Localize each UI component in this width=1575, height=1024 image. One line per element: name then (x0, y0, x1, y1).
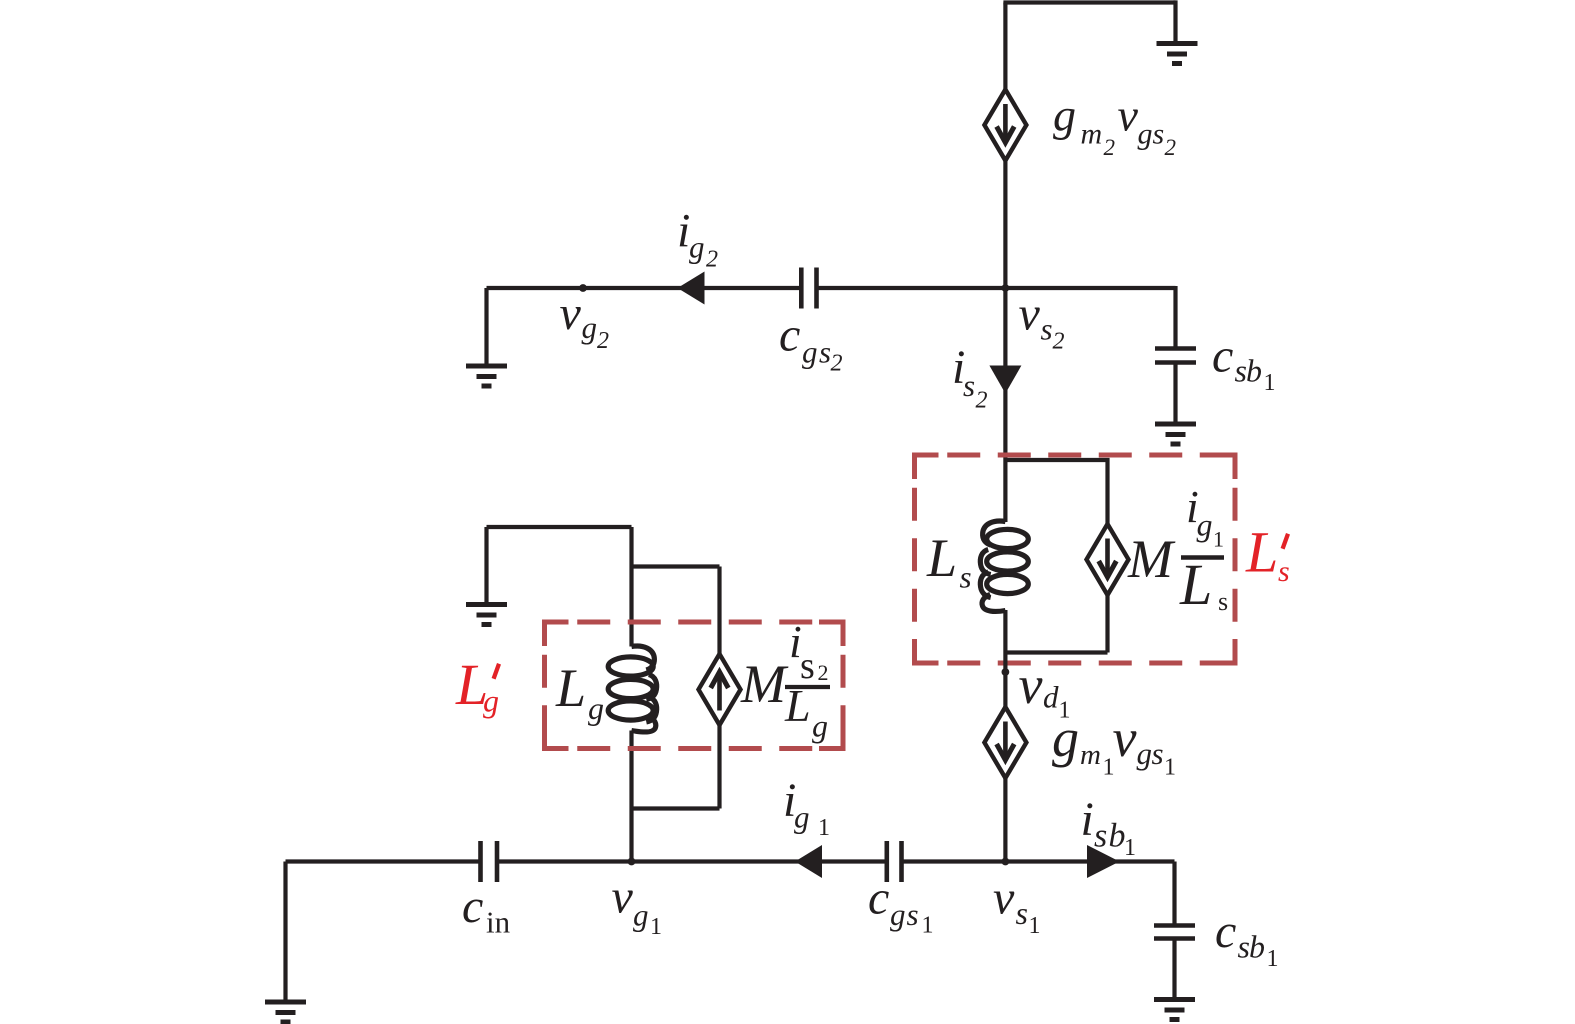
dashed box L_g' (equivalent inductance) (545, 622, 844, 749)
current arrow i_g1 (left) (795, 845, 822, 878)
ground (csb1 upper) (1155, 424, 1196, 444)
dependent current source M·i_s2/L_g (arrow up) (699, 654, 741, 725)
label fraction i_s2/L_g (784, 616, 830, 744)
node v_s2 junction (1002, 284, 1010, 292)
dependent current source G2 (g_m2·v_gs2, arrow down) (984, 90, 1026, 161)
wire: drop from top rail to ground (1173, 0, 1177, 43)
wire: Lg top horizontal (487, 525, 632, 529)
wire: Lg upper lead (629, 527, 633, 647)
svg-text:M: M (1127, 529, 1176, 589)
dependent current source M·i_g1/L_s (arrow down) (1087, 524, 1129, 595)
wire: Ls box inner top branch (1005, 460, 1107, 524)
wire: drop from vg2 rail to ground (484, 288, 488, 366)
current arrow i_s2 (down) (989, 366, 1021, 394)
current arrow i_g2 (left) (678, 272, 705, 305)
capacitor C_gs1 (887, 841, 902, 882)
label L_s′ (red) (1245, 520, 1290, 589)
ground (top right) (1157, 44, 1198, 64)
dependent current source G1 (g_m1·v_gs1, arrow down) (984, 707, 1026, 778)
capacitor C_sb1 (upper) (1155, 349, 1196, 363)
wire: csb1(upper) bottom lead (1173, 363, 1177, 425)
wire: vs2 down to Ls coil (1003, 288, 1007, 522)
wire: source rail right segment (cgs1 to csb1 branch) (902, 859, 1175, 863)
node v_g1 (628, 858, 636, 866)
wire: gm2 source top lead (1003, 3, 1007, 92)
current arrow i_sb1 (right) (1087, 845, 1120, 878)
capacitor C_sb1 (lower) (1154, 926, 1195, 939)
wire: gm1 bottom lead to node vs1 (1003, 778, 1007, 862)
wire: M-source branch bottom horizontal (left box) (632, 806, 720, 810)
wire: csb1(lower) top lead (1172, 862, 1176, 926)
wire: M source bottom lead (right box) (1105, 595, 1109, 653)
dashed box L_s' (equivalent inductance) (915, 455, 1236, 663)
node v_g2 (579, 284, 587, 292)
wire: csb1(upper) top lead (1173, 286, 1177, 349)
wire: input rail left segment (cin left) (286, 859, 481, 863)
capacitor C_gs2 (801, 268, 816, 309)
wire: input drop to ground (283, 862, 287, 1003)
label fraction i_g1/L_s (1179, 481, 1228, 617)
wire: M-source branch top horizontal (left box) (632, 564, 720, 568)
node v_s1 (1002, 858, 1010, 866)
inductor L_g (coil) (608, 646, 656, 732)
wire: M source bottom lead (left box) (717, 724, 721, 809)
ground (input) (265, 1002, 306, 1022)
node v_d1 (1002, 668, 1010, 676)
ground (csb1 lower) (1154, 1000, 1195, 1020)
wire: vg2 rail right segment (cgs2 to csb1 branch) (817, 286, 1176, 290)
capacitor C_in (481, 841, 498, 882)
svg-text:M: M (740, 654, 789, 714)
wire: gm2 bottom lead to node vs2 (1003, 161, 1007, 289)
wire: Ls box inner bottom branch (1005, 650, 1107, 654)
wire: top rail from gm2 branch to ground branch (1003, 0, 1175, 4)
wire: Lg top drop to ground (484, 527, 488, 605)
wire: csb1(lower) bottom lead (1172, 939, 1176, 1000)
ground (vg2 rail) (466, 366, 507, 386)
wire: input rail middle segment (cin to cgs1) (497, 859, 887, 863)
wire: vg2 rail left segment (vg2 to cgs2) (487, 286, 802, 290)
wire: M source top lead (left box) (717, 567, 721, 656)
wire: Ls coil to node vd1 and gm1 (1003, 610, 1007, 707)
ground (Lg top) (466, 605, 507, 625)
wire: Lg lower lead to node vg1 (629, 731, 633, 862)
inductor L_s (coil) (980, 521, 1028, 611)
label L_g′ (red) (455, 652, 501, 719)
